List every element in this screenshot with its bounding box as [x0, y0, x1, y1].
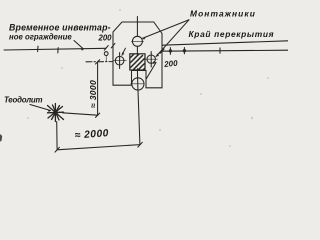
- fence line: [4, 48, 106, 50]
- leader to theodolite: [30, 105, 51, 111]
- svg-text:Край перекрытия: Край перекрытия: [189, 29, 275, 39]
- worker circle bottom: [132, 78, 144, 90]
- slab dot 1: [169, 49, 172, 52]
- slab dot 2: [183, 49, 186, 52]
- svg-text:Временное инвентар-: Временное инвентар-: [9, 23, 111, 33]
- slab edge label underline leader: [162, 41, 288, 45]
- slab tick: [219, 48, 221, 53]
- fence tick 1: [37, 46, 39, 51]
- worker circle right: [147, 55, 155, 63]
- theodolite star symbol: [53, 110, 57, 114]
- arrow in right leg: [147, 63, 157, 79]
- svg-text:Монтажники: Монтажники: [190, 8, 256, 18]
- slab edge line: [162, 50, 288, 51]
- extension below theodolite: [56, 122, 58, 150]
- slash bottom of 3000 dim: [96, 113, 100, 117]
- worker circle left: [115, 56, 124, 65]
- label: temporary fence text: [9, 23, 111, 42]
- slash at structure left edge: [111, 43, 115, 48]
- svg-text:200: 200: [163, 59, 179, 70]
- leader from fence label: [74, 41, 84, 50]
- dimension line 2000: [57, 145, 140, 150]
- leader to top circle: [143, 20, 189, 38]
- faint scan specks: [27, 9, 269, 147]
- slash top of 3000 dim: [96, 60, 100, 64]
- vertical dimension line 3000: [97, 62, 99, 115]
- slash right of 2000 dim: [138, 142, 143, 147]
- svg-text:≈ 3000: ≈ 3000: [88, 80, 98, 108]
- leader to right circle: [156, 20, 189, 57]
- axis dash line (left of structure): [86, 61, 113, 63]
- hatched column square: [122, 51, 153, 82]
- slash at structure right edge: [160, 49, 164, 53]
- line theodolite to 3000 dim: [63, 113, 98, 115]
- column axis centerline (vertical): [136, 17, 138, 37]
- arrow at left worker: [122, 48, 126, 55]
- fence tick 2: [57, 48, 59, 53]
- slash at fence end: [104, 46, 108, 51]
- svg-text:ное ограждение: ное ограждение: [9, 33, 72, 42]
- structure outline: [113, 22, 162, 88]
- scan artifact left edge: [0, 134, 2, 142]
- faint drop from ring: [105, 56, 107, 62]
- worker circle top: [132, 36, 142, 46]
- svg-text:Теодолит: Теодолит: [4, 95, 42, 104]
- svg-text:200: 200: [98, 34, 113, 43]
- ring at fence end: [104, 52, 108, 56]
- slash left of 2000 dim: [55, 147, 59, 152]
